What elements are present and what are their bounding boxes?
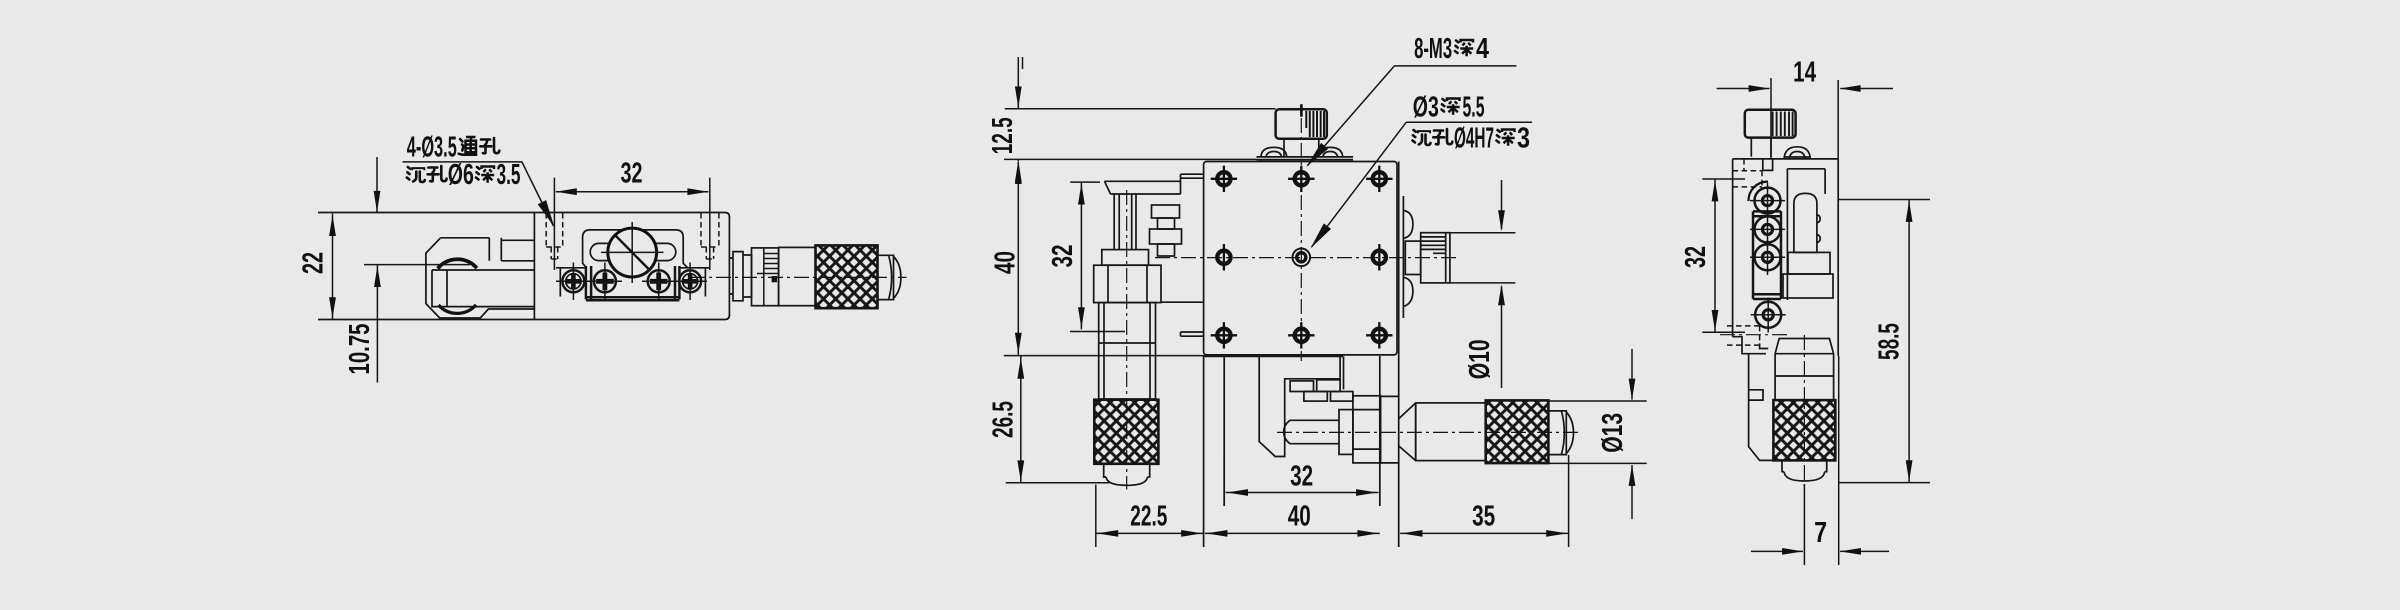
- view2 dim 32 left: [1047, 182, 1125, 331]
- view3 cylinder: [1794, 193, 1820, 252]
- view3 stem step: [1763, 159, 1773, 171]
- view1 label 4-03.5 through hole: [403, 132, 559, 230]
- view3 dim 58.5: [1838, 200, 1930, 483]
- view1 clamp arm top notch: [489, 238, 534, 261]
- view1 micrometer thimble: [752, 248, 779, 306]
- view1 bracket bottom bar: [586, 297, 680, 300]
- view1 bracket side plates: [586, 266, 680, 299]
- view2 plate centerline vertical: [1300, 143, 1302, 361]
- view3 axis centerline horizontal: [1720, 334, 1790, 336]
- view1 screw S3: [642, 263, 676, 301]
- view2 bottom flange: [1339, 410, 1353, 455]
- view3 micrometer centerline: [1803, 335, 1805, 490]
- svg-text:12.5: 12.5: [987, 117, 1019, 154]
- view1 bracket step lines: [556, 268, 709, 297]
- view2 plate centerline horizontal: [1155, 257, 1458, 259]
- view2 bottom micrometer sleeve: [1416, 403, 1486, 461]
- view2 leaf springs: [1290, 380, 1353, 401]
- view2 dim 12.5: [987, 57, 1276, 182]
- view2 base column verticals: [1380, 355, 1399, 547]
- view2 dim 40 left: [990, 162, 1022, 355]
- view1 reference down arrow: [374, 157, 381, 213]
- svg-text:4: 4: [1476, 33, 1489, 65]
- view2 lower stage left edge extended: [1203, 355, 1205, 547]
- view2 left carriage arm lines: [1105, 174, 1204, 194]
- view2 right spring plunger bottom: [1403, 277, 1413, 306]
- view2 hole H6: [1211, 322, 1237, 348]
- view3 micrometer bracket: [1749, 354, 1774, 461]
- view1 screw S4: [673, 263, 707, 301]
- view1 body top edge with extension to dim 22: [318, 213, 729, 218]
- view3 screw T4: [1751, 298, 1786, 333]
- view2 hole H7: [1288, 322, 1314, 348]
- view2 label 8-M3 deep 4: [1303, 33, 1517, 170]
- view3 screw strip: [1753, 211, 1781, 299]
- view2 right mount block: [1405, 241, 1420, 274]
- view2 label dia3 deep 5.5: [1307, 92, 1532, 252]
- svg-text:10.75: 10.75: [344, 323, 376, 374]
- view2 spring washer right: [1318, 147, 1343, 157]
- svg-text:Ø4H7: Ø4H7: [1454, 123, 1494, 155]
- view2 left micrometer barrel: [1099, 303, 1156, 399]
- view3 spring washer: [1784, 147, 1810, 159]
- view2 left carriage bottom lines: [1161, 302, 1204, 336]
- view2 label counterbore dia4H7 deep 3: [1413, 123, 1531, 155]
- view2 knob: [1276, 104, 1327, 157]
- view2 under-plate top line: [1204, 355, 1343, 357]
- view2 left micrometer flange: [1102, 250, 1149, 266]
- view3 micrometer thimble: [1775, 339, 1834, 401]
- view2 hole H8: [1366, 322, 1392, 348]
- svg-text:3.5: 3.5: [497, 159, 521, 191]
- view2 bottom micrometer centerline: [1277, 431, 1580, 433]
- view2 left micrometer tip: [1104, 464, 1150, 486]
- view1 central rounded plate: [583, 230, 688, 268]
- view1 counterbore hidden lines left: [546, 213, 563, 259]
- view1 dim 32: [554, 158, 709, 271]
- view3 knob: [1745, 110, 1796, 157]
- svg-text:7: 7: [1814, 517, 1827, 549]
- svg-text:5.5: 5.5: [1463, 92, 1485, 124]
- view2 right knob: [1421, 233, 1450, 283]
- view3 screw T1: [1748, 182, 1785, 218]
- view3 hidden lines bottom: [1727, 326, 1760, 345]
- view3 dim 7: [1751, 356, 1889, 565]
- view1 big circle crosshairs: [601, 222, 664, 283]
- view3 dim 14: [1717, 57, 1893, 160]
- view2 lower bracket left vertical: [1223, 356, 1225, 506]
- view1 roller bearing bottom arc: [439, 305, 477, 314]
- view3 nut block: [1788, 252, 1830, 274]
- view1 slot stadium: [590, 243, 676, 260]
- view2 hole H2: [1288, 166, 1314, 192]
- view2 bottom micrometer end cap: [1548, 411, 1573, 455]
- view3 screw T2: [1750, 212, 1785, 247]
- view2 dim dia13: [1548, 349, 1646, 519]
- svg-text:40: 40: [1288, 501, 1311, 533]
- view1 body bottom edge with extension: [318, 315, 729, 320]
- view1 micrometer end cap: [878, 255, 901, 299]
- view3 micrometer knurl: [1773, 400, 1835, 460]
- view3 dim 32: [1680, 179, 1745, 332]
- view3 body outline: [1733, 159, 1839, 356]
- view2 left micrometer centerline: [1126, 190, 1128, 490]
- view2 left micrometer hex: [1094, 265, 1161, 302]
- view1 micrometer knurl: [816, 245, 878, 308]
- view2 dim 32 bottom: [1224, 450, 1380, 506]
- svg-text:32: 32: [1680, 246, 1712, 268]
- svg-text:22.5: 22.5: [1130, 501, 1167, 533]
- view2 base plate: [1204, 162, 1397, 355]
- view2 dim 35: [1400, 455, 1569, 547]
- view1 body left edge: [533, 213, 535, 320]
- view1 screw S1: [556, 263, 591, 301]
- view2 hole H1: [1211, 166, 1237, 192]
- svg-text:35: 35: [1472, 501, 1495, 533]
- view2 spring washer left: [1261, 147, 1287, 157]
- svg-text:Ø10: Ø10: [1464, 339, 1496, 379]
- view3 hidden lines top: [1733, 159, 1762, 187]
- view2 dim dia10: [1450, 180, 1516, 388]
- svg-text:22: 22: [298, 252, 330, 274]
- svg-text:32: 32: [1290, 461, 1313, 493]
- svg-text:58.5: 58.5: [1874, 323, 1906, 360]
- view1 dim 10.75: [344, 265, 470, 383]
- svg-text:Ø13: Ø13: [1597, 413, 1629, 453]
- svg-text:8-M3: 8-M3: [1414, 33, 1452, 65]
- view1 counterbore hidden lines right: [701, 213, 719, 259]
- view1 big circle slash: [615, 235, 651, 271]
- view2 left clamp tabs: [1150, 205, 1182, 256]
- view3 screw T3: [1750, 240, 1785, 275]
- view2 hole H4: [1217, 244, 1230, 270]
- view2 hole H5: [1373, 244, 1386, 270]
- view3 step mark: [1760, 343, 1769, 348]
- view2 right spring plunger top: [1403, 210, 1413, 238]
- view2 L-bracket: [1259, 356, 1343, 456]
- view1 screw S2: [588, 263, 622, 301]
- view1 center hole big circle: [608, 228, 657, 277]
- view2 hole H3: [1366, 166, 1392, 192]
- view2 left micrometer spindle: [1114, 194, 1136, 250]
- svg-text:Ø6: Ø6: [448, 159, 474, 191]
- view1 micrometer centerline: [690, 276, 907, 278]
- view3 lower block: [1783, 274, 1833, 298]
- view1 clamp arm octagon outline: [426, 238, 535, 318]
- svg-text:14: 14: [1793, 57, 1816, 89]
- svg-text:32: 32: [621, 158, 643, 190]
- view3 micrometer tip: [1782, 460, 1827, 481]
- svg-text:26.5: 26.5: [988, 401, 1020, 438]
- view2 dim 22.5: [1096, 485, 1204, 548]
- view1 clamp arm slider rect: [432, 270, 534, 307]
- svg-text:40: 40: [990, 251, 1022, 274]
- view2 bottom micrometer knurl: [1486, 400, 1549, 463]
- view2 bottom hex nut: [1353, 396, 1381, 463]
- view1 roller bearing top arc: [438, 259, 477, 268]
- view1 micrometer sleeve: [779, 247, 816, 305]
- view2 dim 40 bottom: [1205, 501, 1380, 537]
- view2 bottom spindle: [1284, 420, 1339, 443]
- svg-text:3: 3: [1517, 123, 1530, 155]
- svg-text:32: 32: [1047, 245, 1079, 268]
- view2 washer plate under knob: [1257, 157, 1354, 160]
- view2 dim 26.5: [988, 356, 1204, 483]
- view2 center hole: [1293, 248, 1311, 266]
- view2 left micrometer knurl: [1094, 400, 1158, 464]
- view1 body right edge: [728, 216, 730, 316]
- view2 bottom micrometer cone: [1399, 403, 1416, 461]
- view2 right plunger plate: [1399, 162, 1404, 355]
- svg-text:Ø3: Ø3: [1413, 92, 1439, 124]
- view1 dim 22: [298, 214, 336, 320]
- view1 micrometer mount bracket: [729, 252, 751, 301]
- view3 carriage plate: [1787, 169, 1825, 300]
